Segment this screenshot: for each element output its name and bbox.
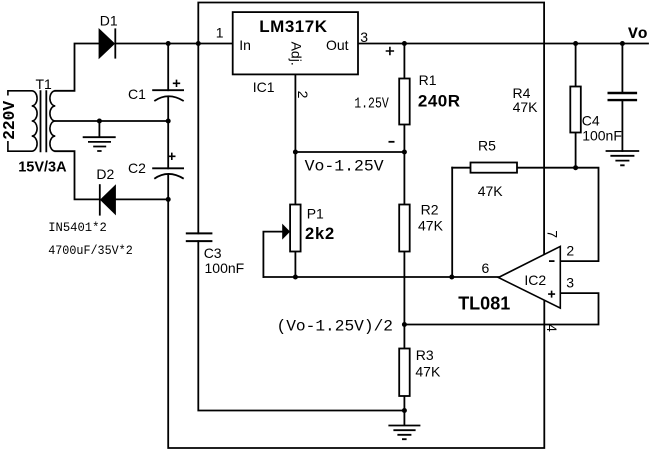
transformer T1 secondary winding	[50, 91, 55, 151]
svg-text:C3: C3	[204, 245, 222, 261]
wire op-amp output pin 6	[263, 276, 498, 278]
wire P1 top lead	[294, 152, 296, 205]
resistor R5 body	[471, 163, 518, 173]
svg-text:Adj.: Adj.	[288, 42, 304, 66]
wire transformer center tap	[55, 120, 168, 122]
svg-text:4: 4	[544, 324, 560, 332]
svg-text:C4: C4	[582, 113, 600, 129]
svg-text:3: 3	[566, 274, 574, 290]
resistor R2 body	[399, 205, 410, 252]
svg-text:C1: C1	[128, 86, 146, 102]
resistor R1 body	[399, 79, 410, 125]
capacitor C1 plates	[152, 90, 184, 101]
wire R5 feedback to op-amp pin 2	[452, 168, 598, 261]
plus sign R1	[386, 47, 394, 55]
svg-text:47K: 47K	[478, 183, 504, 199]
white backing for 220V label	[1, 96, 15, 142]
transformer T1 core	[41, 90, 47, 152]
svg-text:P1: P1	[307, 206, 324, 222]
wire LM317K Out (pin 3) rail to Vo	[358, 43, 648, 45]
svg-text:LM317K: LM317K	[259, 17, 327, 36]
wire C2 leads	[167, 121, 169, 199]
svg-text:T1: T1	[36, 76, 53, 92]
wire LM317K Adj pin 2	[294, 74, 296, 152]
diode D1	[99, 28, 116, 59]
capacitor C4 plates	[608, 93, 638, 100]
svg-text:R2: R2	[421, 201, 439, 217]
svg-text:D1: D1	[100, 13, 118, 29]
wire R4 bottom lead	[575, 133, 577, 168]
wire P1 wiper loop	[263, 232, 282, 277]
svg-text:47K: 47K	[415, 364, 441, 380]
wire R4 top lead	[575, 44, 577, 87]
svg-text:2: 2	[566, 242, 574, 258]
plus sign op-amp	[548, 291, 555, 298]
svg-text:(Vo-1.25V)/2: (Vo-1.25V)/2	[277, 317, 394, 335]
svg-text:R5: R5	[478, 137, 496, 153]
wire top frame V+ rail to op-amp pin 7	[198, 3, 544, 255]
plus sign C2	[168, 153, 175, 160]
wire Vo-1.25V node	[295, 151, 404, 153]
svg-text:47K: 47K	[418, 218, 444, 234]
svg-text:In: In	[239, 37, 251, 53]
resistor R3 body	[399, 349, 410, 397]
svg-text:100nF: 100nF	[582, 128, 622, 144]
svg-text:240R: 240R	[418, 91, 461, 110]
wire C3 lower lead to ground wire	[198, 241, 404, 410]
potentiometer P1 wiper arrow	[282, 224, 290, 240]
svg-text:47K: 47K	[513, 99, 539, 115]
ground below R3	[388, 411, 420, 440]
svg-text:IC2: IC2	[524, 272, 546, 288]
wire C3 upper lead from pin1 rail	[197, 44, 199, 234]
wire R5 left leg to output	[451, 168, 453, 277]
plus sign C1	[173, 80, 180, 87]
wire C4 leads	[621, 44, 623, 152]
svg-text:R3: R3	[416, 347, 434, 363]
wire D1 cathode to LM317K In (pin 1)	[115, 43, 232, 45]
wire R3 leads	[403, 325, 405, 411]
svg-text:TL081: TL081	[458, 294, 510, 314]
wire R2 bottom lead crossing to (Vo-1.25V)/2 node	[403, 252, 405, 325]
svg-text:Vo: Vo	[628, 25, 648, 43]
svg-text:1.25V: 1.25V	[354, 95, 389, 112]
wire R1 leads	[403, 44, 405, 153]
svg-text:D2: D2	[96, 166, 114, 182]
svg-text:1: 1	[216, 25, 224, 41]
svg-text:4700uF/35V*2: 4700uF/35V*2	[48, 244, 133, 258]
wire R2 top lead	[403, 152, 405, 205]
svg-text:2: 2	[295, 91, 311, 99]
svg-text:6: 6	[482, 260, 490, 276]
svg-text:220V: 220V	[0, 101, 19, 140]
svg-text:3: 3	[360, 29, 368, 45]
potentiometer P1 body	[290, 205, 301, 252]
svg-text:R1: R1	[419, 72, 437, 88]
svg-text:7: 7	[545, 230, 561, 238]
transformer T1 primary winding with 220V loop	[8, 91, 37, 151]
wire transformer secondary bottom to D2	[55, 151, 99, 199]
ground at transformer center tap	[83, 121, 116, 151]
svg-text:C2: C2	[128, 160, 146, 176]
resistor R4 body	[570, 87, 581, 133]
minus sign op-amp	[549, 260, 555, 262]
op-amp U2 TL081 triangle	[498, 246, 560, 308]
svg-text:15V/3A: 15V/3A	[18, 160, 67, 176]
svg-text:100nF: 100nF	[205, 260, 245, 276]
node junction dots	[97, 41, 625, 413]
regulator IC1 LM317K box	[233, 12, 358, 74]
wire transformer secondary top to D1 anode	[55, 44, 100, 91]
svg-text:Out: Out	[326, 37, 349, 53]
ground below C4	[606, 151, 640, 165]
minus sign R1	[389, 141, 395, 143]
wire negative rail left/bottom to op-amp pin 4	[168, 199, 544, 448]
wire (Vo-1.25V)/2 node to op-amp pin 3	[404, 293, 598, 324]
svg-text:Vo-1.25V: Vo-1.25V	[305, 158, 384, 176]
wire D2 anode to negative rail	[116, 198, 169, 200]
svg-text:IN5401*2: IN5401*2	[48, 221, 107, 235]
capacitor C2 plates	[152, 168, 184, 178]
wire C1 leads	[167, 44, 169, 122]
wire P1 bottom lead	[294, 252, 296, 278]
svg-text:IC1: IC1	[253, 79, 275, 95]
diode D2	[100, 184, 116, 215]
capacitor C3 plates	[186, 233, 213, 241]
svg-text:2k2: 2k2	[305, 225, 335, 243]
